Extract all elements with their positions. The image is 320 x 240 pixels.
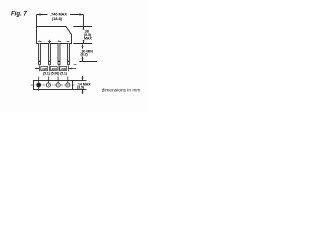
svg-text:MAX: MAX — [84, 36, 92, 40]
extension line body bottom right — [74, 43, 93, 45]
tick hole 2 — [47, 77, 49, 84]
polarity marking ~ — [38, 40, 41, 43]
pin 2 hole — [46, 83, 50, 87]
extension line bottom view bottom — [73, 89, 87, 91]
package body outline — [37, 27, 72, 44]
dimension arrows lead pitch — [35, 68, 76, 70]
lead 1 — [39, 44, 41, 65]
lead 4 — [68, 44, 70, 65]
lead width mark — [74, 63, 77, 65]
polarity marking ~ — [58, 40, 61, 43]
boxed dimension .200 pitch 2 — [50, 67, 57, 71]
tick lead 4 center — [68, 66, 70, 72]
dimension arrows thickness .14 MAX — [82, 76, 84, 94]
polarity marking + — [48, 40, 51, 43]
svg-text:.200: .200 — [51, 67, 57, 71]
dimension line top width .740 MAX — [37, 14, 84, 16]
svg-text:Fig. 7: Fig. 7 — [11, 12, 27, 18]
svg-text:.740 MAX: .740 MAX — [50, 12, 67, 16]
pin 3 hole — [56, 83, 60, 87]
polarity marking - — [67, 41, 70, 43]
reference line lead end — [80, 61, 98, 63]
tick lead 1 center — [39, 66, 41, 72]
boxed dimension .200 pitch 3 — [60, 67, 67, 71]
svg-text:(8.2): (8.2) — [81, 53, 88, 57]
svg-text:(5.1) (5.08) (5.1): (5.1) (5.08) (5.1) — [43, 72, 67, 76]
tick hole 1 — [38, 77, 40, 92]
tick hole 3 — [57, 77, 59, 84]
svg-text:(3.5): (3.5) — [77, 86, 84, 90]
svg-text:(18.8): (18.8) — [52, 17, 63, 21]
tick hole 4 — [67, 77, 69, 84]
svg-text:.200: .200 — [41, 67, 47, 71]
lead 3 — [58, 44, 60, 65]
tick lead 3 center — [58, 66, 60, 72]
lead 2 — [49, 44, 51, 65]
extension line left of top dimension — [36, 15, 38, 27]
extension line body top right — [74, 26, 93, 28]
svg-text:dimensions in mm: dimensions in mm — [102, 87, 141, 93]
svg-text:.200: .200 — [60, 67, 66, 71]
extension line bottom view top — [73, 80, 87, 82]
tick lead 2 center — [49, 66, 51, 72]
boxed dimension .200 pitch 1 — [41, 67, 48, 71]
dimension line body height .38 MAX — [83, 27, 85, 30]
centerline bottom view — [31, 84, 75, 86]
pin 4 hole — [66, 83, 70, 87]
dimension line lead length .30 MIN — [82, 47, 84, 49]
bottom view body outline — [34, 81, 73, 90]
extension line right of top dimension — [83, 15, 85, 27]
pin 1 hole (filled) — [37, 83, 41, 87]
